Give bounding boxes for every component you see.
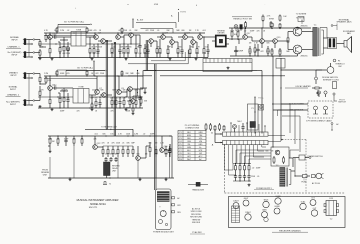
wire reverb bus	[48, 136, 174, 179]
wire shielded pair A	[106, 40, 107, 129]
resistor R32	[196, 44, 198, 58]
label top right	[269, 19, 275, 29]
svg-text:TO P4: TO P4	[180, 12, 185, 14]
transistor Q26 feedback	[131, 96, 136, 107]
svg-text:2.2M: 2.2M	[44, 73, 48, 75]
resistor R1	[39, 40, 41, 48]
ground ps	[248, 184, 251, 187]
transistor Q22	[93, 136, 102, 149]
resistor R71	[279, 23, 281, 29]
svg-text:P10: P10	[179, 159, 182, 161]
resistor R25	[135, 97, 137, 108]
transistor Q9	[117, 76, 125, 94]
svg-text:680: 680	[182, 30, 185, 32]
resistor R41	[287, 32, 289, 50]
svg-text:12AX7: 12AX7	[233, 200, 238, 203]
resistor R26	[144, 44, 146, 58]
wire input bus	[35, 40, 46, 53]
svg-text:6 FT INTERCONNECT CABLE: 6 FT INTERCONNECT CABLE	[306, 119, 332, 122]
panel knob 1	[159, 207, 166, 217]
ground ch2 bus taps	[51, 108, 128, 111]
svg-text:6GW8: 6GW8	[275, 196, 280, 198]
wire ch2 d	[121, 89, 143, 97]
capacitor C17	[64, 136, 67, 146]
svg-text:TREMOLO FOOT SW: TREMOLO FOOT SW	[233, 18, 252, 20]
resistor R49	[112, 146, 114, 157]
tube V5	[262, 209, 268, 218]
svg-text:TO REVERB UNIT: TO REVERB UNIT	[101, 126, 118, 128]
reverb unit block	[104, 162, 121, 176]
label receiver chassis	[272, 229, 308, 232]
label CHANNEL 2 inputs	[6, 72, 21, 106]
capacitor C2	[66, 42, 69, 58]
resistor R5	[58, 42, 61, 58]
svg-text:INPUT: INPUT	[10, 75, 17, 77]
svg-text:470: 470	[67, 73, 70, 75]
capacitor C23 filter	[234, 172, 237, 181]
svg-text:.05: .05	[129, 30, 132, 32]
svg-text:FUSE: FUSE	[302, 182, 308, 184]
jack J7 foot sw	[323, 106, 328, 114]
labels ch1 mid values	[41, 47, 208, 49]
svg-text:470: 470	[77, 111, 80, 113]
resistor R15	[45, 76, 52, 84]
wire ch1 signal line	[38, 43, 140, 44]
wire mix bus	[140, 57, 208, 58]
wire ps bus upper	[233, 163, 251, 164]
svg-text:ORG: ORG	[187, 141, 192, 143]
jack J3 channel2 vibrato	[23, 73, 26, 79]
labels ch1 low values	[59, 53, 209, 55]
transistor Q20 output upper	[288, 26, 308, 36]
wire ch2 c	[97, 76, 112, 95]
svg-text:6BQ5: 6BQ5	[264, 200, 269, 202]
wire ch1 ground bus	[38, 57, 140, 58]
labels ch1 top values	[44, 30, 206, 32]
pot VR2 trem	[234, 25, 238, 31]
capacitor C12	[180, 44, 183, 58]
title block	[77, 199, 119, 209]
wire shielded pair B	[114, 42, 115, 136]
resistor R20	[95, 99, 97, 108]
resistor R4	[49, 44, 51, 58]
resistor R60 decouple	[56, 27, 58, 34]
svg-text:2.2M: 2.2M	[134, 133, 138, 135]
transducer TD1	[188, 182, 208, 191]
svg-text:TONE: TONE	[76, 30, 82, 32]
svg-text:680: 680	[129, 47, 132, 49]
wire ch2 out up	[143, 71, 145, 90]
wire pwr bus	[230, 55, 290, 56]
capacitor C5	[138, 35, 141, 58]
svg-text:680: 680	[266, 151, 269, 153]
panel pilot	[165, 223, 167, 225]
resistor R33	[203, 44, 205, 58]
resistor R69	[262, 15, 271, 29]
label heaters	[296, 18, 305, 25]
component thermal	[312, 175, 316, 178]
svg-text:SPKR CONN: SPKR CONN	[191, 211, 202, 213]
capacitor C25 filter	[243, 172, 246, 181]
transformer T4 output	[313, 25, 324, 57]
tube V11	[264, 217, 268, 221]
svg-text:P9: P9	[179, 156, 181, 158]
wire ch2 second rail	[44, 77, 97, 79]
resistor R51	[122, 146, 124, 157]
resistor R44	[57, 136, 59, 146]
table wiring chart	[178, 125, 206, 161]
svg-text:INPUT: INPUT	[10, 104, 17, 106]
jack J1 channel1 normal	[23, 39, 26, 45]
wire mix b	[174, 37, 193, 44]
jack J4 channel2 bright	[23, 100, 26, 106]
svg-text:SPKR: SPKR	[269, 19, 275, 21]
resistor R29	[167, 45, 169, 58]
resistor R18	[63, 91, 65, 108]
resistor R39	[271, 48, 273, 56]
label notes	[190, 208, 202, 225]
wire stair turns	[225, 147, 267, 175]
wire ch1 mid vertical	[146, 40, 156, 190]
label top mid	[232, 17, 252, 21]
svg-text:.05: .05	[157, 30, 160, 32]
capacitor C19	[109, 157, 112, 162]
resistor R21	[111, 97, 113, 108]
svg-text:T-2: T-2	[276, 165, 279, 167]
svg-text:P8: P8	[179, 153, 181, 155]
wire ch1 c	[95, 33, 112, 41]
resistor R37	[254, 44, 256, 56]
wire ch2 signal line	[38, 96, 143, 97]
diode D5	[223, 125, 225, 131]
connector X1	[259, 105, 264, 111]
wire ch2 input bus	[35, 74, 46, 101]
resistor R61 decouple	[57, 27, 88, 34]
svg-text:TO HTRS: TO HTRS	[296, 18, 305, 20]
svg-text:680: 680	[137, 73, 140, 75]
terminal strip TS2	[223, 141, 269, 145]
tube V7	[274, 206, 280, 214]
resistor R45	[73, 136, 75, 146]
wire mix a	[153, 37, 172, 44]
wire stub	[140, 88, 147, 94]
ground reverb taps	[69, 178, 168, 181]
resistor R62 decouple	[121, 28, 123, 34]
label ext cable	[290, 109, 304, 112]
svg-text:B+: B+	[199, 147, 201, 149]
svg-text:470: 470	[94, 30, 97, 32]
transistor Q25 bias	[275, 150, 280, 155]
plug symbol P4	[103, 182, 111, 186]
shield box corner inner	[151, 52, 185, 61]
transistor Q7	[95, 88, 103, 94]
resistor R64 decouple ch2	[57, 70, 88, 77]
ground ch2 input	[39, 105, 42, 108]
svg-text:6AV6: 6AV6	[262, 209, 266, 212]
wire trem vert line	[132, 19, 176, 29]
resistor R53	[132, 146, 134, 157]
wire J1 to grid	[26, 39, 34, 58]
labels below ch2 bus	[60, 111, 131, 113]
fuse F1	[295, 175, 310, 184]
transistor Q2	[94, 33, 102, 40]
svg-text:P4: P4	[179, 141, 181, 143]
chassis box preamp terminals	[203, 59, 252, 72]
resistor R31	[189, 45, 191, 58]
resistor R28	[159, 44, 161, 58]
ground preamp box	[227, 67, 230, 70]
resistor R19	[91, 103, 93, 108]
svg-text:TREM SW: TREM SW	[192, 219, 201, 221]
transistor Q19	[273, 37, 282, 48]
wire reverb rail	[48, 135, 172, 136]
capacitor C26 filter	[247, 172, 250, 181]
diode D2	[210, 123, 212, 131]
chassis receiver outline	[229, 197, 346, 228]
svg-text:POWER MODULE UNIT: POWER MODULE UNIT	[153, 231, 175, 233]
label trem speed	[285, 85, 311, 88]
jack J6 foot sw	[313, 106, 318, 114]
junction dots extra	[106, 40, 281, 136]
resistor R52	[127, 146, 129, 157]
diode D3	[214, 125, 216, 131]
component neon NE1	[233, 121, 242, 132]
svg-text:.05: .05	[257, 176, 260, 178]
svg-text:CHANNEL 1: CHANNEL 1	[7, 46, 20, 49]
wire ch1 d	[120, 35, 140, 44]
transformer T2 power	[276, 165, 291, 187]
transistor Q13	[170, 40, 175, 48]
capacitor C8	[98, 99, 101, 108]
capacitor C27 trem	[240, 25, 243, 32]
wire trem a	[315, 70, 323, 84]
transistor Q23	[136, 146, 141, 160]
resistor R66 fb	[138, 96, 143, 106]
wire ch2 a	[58, 88, 73, 92]
ground fb	[132, 112, 135, 115]
wire ch1 second rail	[44, 34, 95, 36]
resistor R54	[149, 142, 151, 157]
svg-text:2N3055: 2N3055	[300, 56, 308, 58]
svg-text:TRANSDUCER: TRANSDUCER	[192, 188, 205, 191]
wire out a	[285, 27, 313, 56]
resistor R8	[93, 44, 95, 58]
capacitor C4	[118, 44, 121, 58]
tube V3	[245, 211, 251, 220]
transistor Q14	[183, 33, 191, 40]
label interconnect cable	[306, 119, 332, 122]
capacitor C22	[241, 123, 244, 132]
wire ch1 b	[86, 37, 95, 45]
resistor R67 fb emitter	[132, 107, 134, 112]
svg-text:4: 4	[196, 5, 197, 7]
label fb	[126, 91, 148, 110]
bias box	[271, 147, 289, 166]
node A upper	[211, 130, 222, 135]
resistor R59	[273, 156, 275, 164]
resistor R55	[155, 146, 157, 157]
transistor Q10	[128, 87, 133, 97]
capacitor C9	[118, 97, 121, 108]
capacitor C14	[256, 44, 259, 56]
svg-text:T1: T1	[109, 184, 111, 186]
resistor R11	[127, 44, 129, 58]
wire trem links	[273, 104, 308, 110]
resistor R38	[267, 46, 269, 56]
capacitor C18	[104, 157, 107, 162]
label panel	[153, 231, 175, 233]
svg-text:6GW8: 6GW8	[274, 206, 279, 208]
svg-text:T-2: T-2	[330, 219, 333, 221]
resistor R23	[123, 97, 125, 108]
wire stair down right	[272, 104, 300, 152]
label power supply	[254, 188, 274, 190]
dashed box foot switch	[308, 101, 333, 118]
labels ch2 top values	[44, 73, 140, 75]
resistor R47	[102, 146, 104, 157]
svg-text:.001: .001	[202, 30, 206, 32]
labels ch2 mid values	[41, 90, 138, 92]
svg-text:MODEL MX2A: MODEL MX2A	[90, 203, 106, 206]
svg-text:AC INTLK: AC INTLK	[192, 208, 201, 211]
tube V2	[243, 198, 249, 206]
label foot switch	[338, 99, 346, 103]
node top tick	[75, 4, 129, 9]
resistor R24	[129, 97, 131, 108]
diode D4	[219, 123, 221, 131]
svg-text:12AU7: 12AU7	[245, 211, 251, 214]
svg-text:SWITCH: SWITCH	[338, 102, 346, 104]
resistor R65 decouple ch2	[121, 71, 123, 77]
label 6gw8	[296, 14, 307, 22]
capacitor C15	[234, 46, 243, 56]
wire strip drops	[225, 145, 262, 175]
resistor R17	[58, 93, 61, 108]
svg-text:B+: B+	[171, 16, 173, 18]
capacitor C1	[52, 34, 58, 39]
resistor R22	[115, 97, 117, 108]
wire feedback y28	[141, 29, 174, 33]
svg-text:SPEAKER JACK: SPEAKER JACK	[336, 21, 352, 24]
svg-text:.001: .001	[204, 47, 208, 49]
ground input	[39, 57, 42, 60]
label CHANNEL 1 inputs	[6, 36, 22, 56]
component right strip c	[333, 93, 337, 101]
wire ch2 B+ arrow	[66, 68, 107, 76]
wire interconnect v2	[280, 58, 282, 141]
shield box corner outer	[128, 50, 188, 64]
transistor Q17	[243, 28, 252, 39]
svg-text:P3: P3	[338, 60, 340, 62]
svg-text:P5: P5	[179, 144, 181, 146]
resistor R34	[231, 28, 238, 40]
label ext speaker	[331, 18, 352, 30]
boundary dashed v	[305, 140, 307, 193]
wire pwr rail	[229, 27, 311, 28]
svg-text:SW: SW	[199, 153, 202, 155]
box interconnect column	[248, 104, 259, 130]
svg-text:50MF: 50MF	[238, 51, 244, 53]
tube V8	[300, 201, 306, 210]
component right strip a	[333, 59, 340, 62]
svg-text:2N3055: 2N3055	[300, 26, 308, 28]
svg-text:6CA4: 6CA4	[301, 201, 306, 204]
resistor R7	[89, 44, 91, 58]
panel jacks	[172, 197, 182, 214]
transformer T5 receiver	[324, 198, 339, 220]
volume pot VR1	[66, 47, 70, 52]
svg-text:RECEIVER CHASSIS: RECEIVER CHASSIS	[279, 229, 301, 232]
svg-text:SN 5771: SN 5771	[89, 207, 98, 209]
diode D1	[205, 123, 207, 131]
transistor Q12	[161, 33, 169, 40]
boundary power module	[225, 144, 346, 193]
wire ps right a	[289, 158, 295, 171]
svg-text:1M: 1M	[52, 141, 55, 143]
resistor R50	[117, 146, 119, 157]
node screen tick	[154, 4, 266, 7]
jack small b	[324, 91, 327, 97]
svg-text:INPUT: INPUT	[11, 40, 18, 42]
dashed link	[281, 139, 306, 140]
diode D7	[239, 164, 241, 173]
wire ch2 ground bus	[38, 107, 143, 108]
jack J5 external speaker	[328, 38, 337, 49]
mark ac interlock	[331, 123, 339, 131]
wire ch2 b	[89, 95, 96, 104]
svg-text:.02: .02	[67, 30, 70, 32]
resistor R30	[177, 44, 179, 58]
wire plug	[314, 175, 317, 177]
transformer T3 driver (shielded)	[212, 30, 229, 46]
wire fb left	[127, 100, 131, 102]
wire ps extra	[290, 150, 299, 177]
svg-text:.02: .02	[143, 133, 146, 135]
tube V4	[263, 200, 269, 208]
capacitor C6	[52, 85, 58, 90]
svg-text:470: 470	[257, 31, 260, 33]
svg-text:6.3V AC HEATER: 6.3V AC HEATER	[296, 85, 312, 88]
resistor R35	[237, 28, 239, 40]
resistor R14	[39, 86, 41, 101]
capacitor C10	[138, 89, 141, 108]
transistor Q21 output lower	[288, 45, 308, 57]
svg-text:ROUGH SMOOTH: ROUGH SMOOTH	[322, 77, 338, 79]
wire long y75.5	[128, 75, 285, 77]
wire ch1 B+ rail	[44, 32, 140, 33]
svg-text:CHANNEL 2: CHANNEL 2	[7, 94, 20, 97]
wire switch	[305, 157, 311, 159]
switch S1 tone box	[71, 30, 86, 47]
svg-text:P2: P2	[179, 135, 181, 137]
svg-text:TONE: TONE	[78, 86, 84, 88]
tube V9	[310, 198, 316, 206]
svg-text:5Y3: 5Y3	[311, 198, 314, 200]
connector table P2	[232, 206, 240, 223]
svg-text:P3: P3	[179, 138, 181, 140]
wire interconnect v3	[257, 71, 262, 134]
resistor R12	[135, 44, 137, 58]
pot VR3	[270, 23, 274, 29]
diode D9	[248, 164, 250, 173]
svg-text:DRIVER: DRIVER	[218, 33, 225, 35]
resistor R56	[169, 144, 171, 157]
wire ps bus lower	[233, 180, 251, 181]
svg-text:680: 680	[179, 47, 182, 49]
resistor R40	[279, 48, 281, 56]
resistor R2	[39, 49, 41, 57]
transistor Q24	[160, 136, 169, 152]
